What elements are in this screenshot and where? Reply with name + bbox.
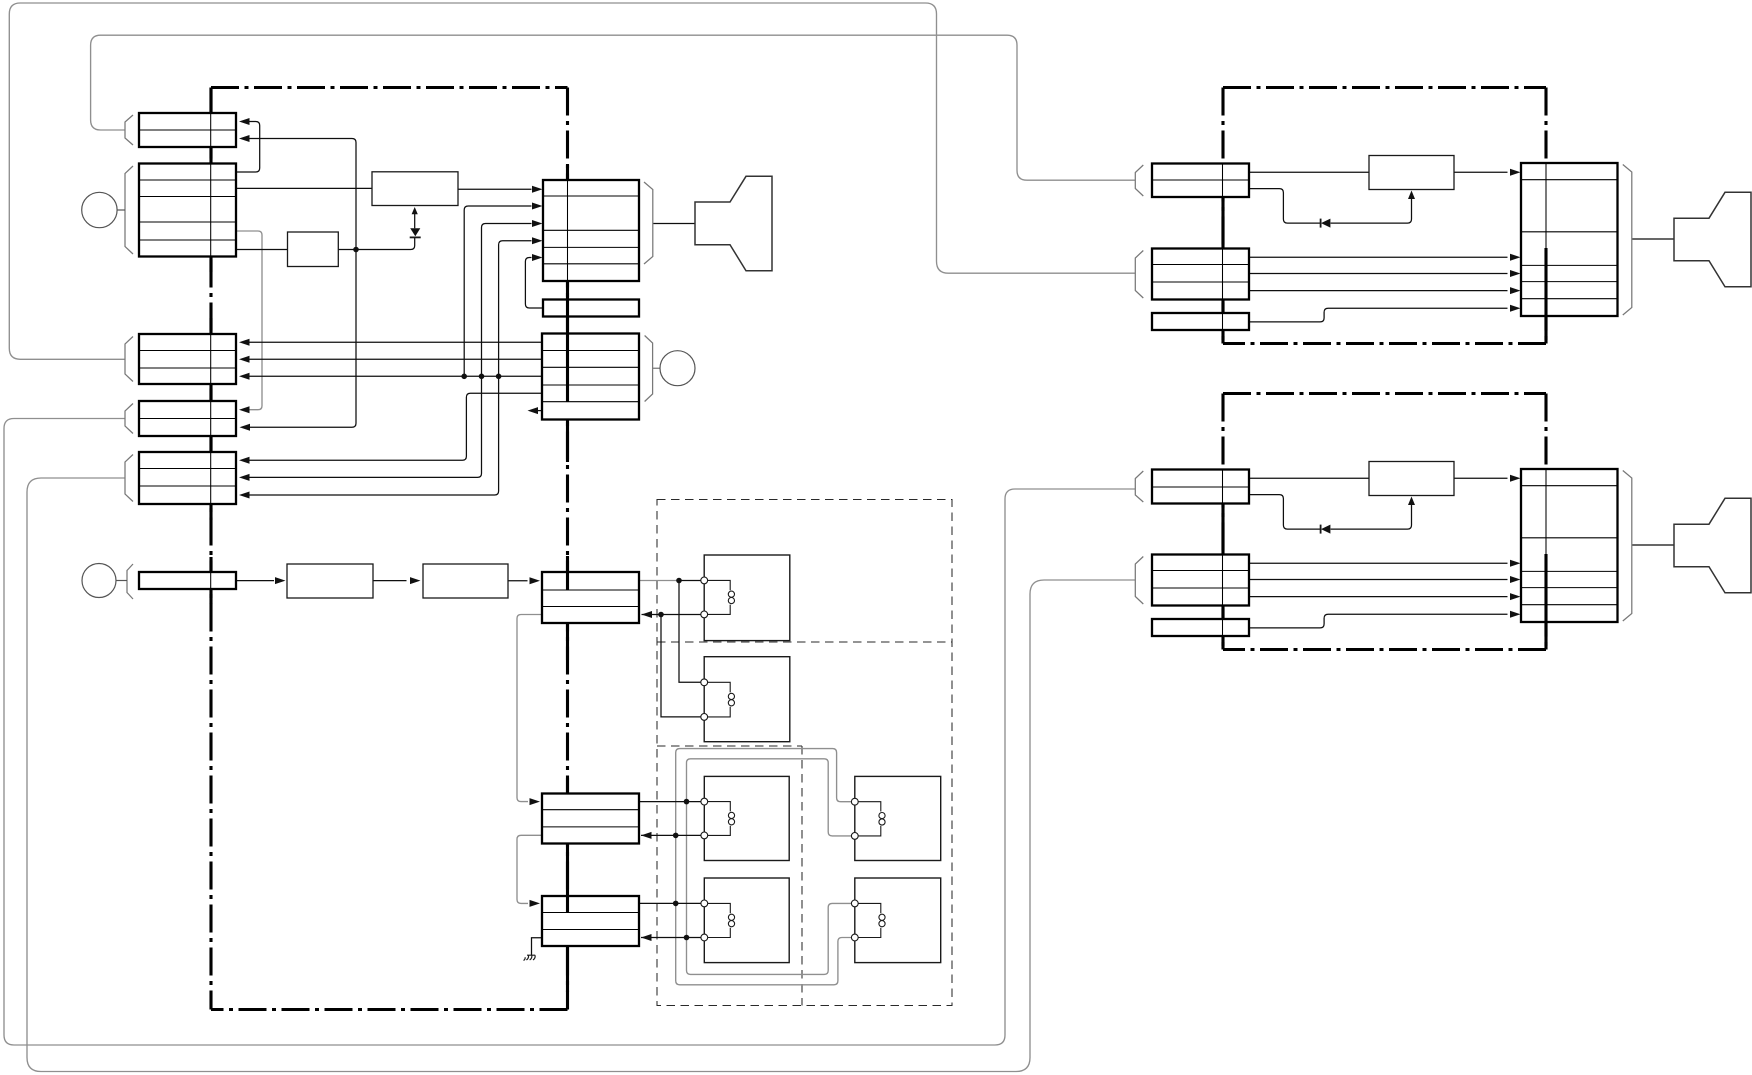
wire: speaker bracket stub SP3 [1632,544,1674,546]
wire: connector S3 to connector K3 [1249,614,1508,628]
ground symbol at connector H [524,955,536,960]
amplifier unit U2 border left [1221,88,1224,344]
connector F body [542,572,639,623]
U1 border solid segment above connector N [209,557,212,572]
block B3 [287,564,373,598]
connector E pin row lines [139,452,236,504]
arrow into block B3 [275,577,286,584]
wire: connector G row3 to connector H row1 [517,835,542,903]
relay R4 terminals [851,798,858,805]
wire: connector A3 row1 to amp block B6 [1249,477,1369,479]
wire: connector H row3 ground lead [532,938,543,955]
connector E body [139,452,236,504]
arrow into connector K3 row3 [1510,560,1521,567]
arrow into connector G row3 [641,832,652,839]
microphone circle at connector B [82,192,117,227]
wire: connector C row1 bus [249,341,542,343]
connector K2 body [1521,163,1618,316]
arrow into connector D row2 [240,424,251,431]
connector H pin row lines [542,913,639,930]
wire: junction to relay R1 coil 1 [679,580,704,582]
wire: amp block B5 output to connector K2 row1 [1454,171,1508,173]
wire: connector A2 row1 to amp block B5 [1249,171,1369,173]
wire: connector H row1 to relay R5 coil 1 [639,902,704,904]
relay R3 body [704,776,789,860]
arrow into connector E row2 [239,474,250,481]
relay R5 coil [708,903,731,937]
wire: connector A3 row2 to diode D3 [1249,495,1321,529]
bracket connector A [125,115,133,145]
connector F pin row lines [542,590,639,607]
U1 border solid segment below connector B [209,257,212,273]
U1 border solid segment between D and E [209,436,212,452]
connector S1 divider [567,300,569,317]
bracket connector K3 [1623,471,1632,622]
relay R3 coil [708,802,731,836]
junction dot relay R3 coil1 [684,799,690,805]
wire: speaker bracket stub SP1 [653,223,695,225]
wire: connector S2 to connector K2 [1249,308,1508,322]
U2 left border solid between B2 and S2 [1221,300,1224,314]
microphone circle at connector J2 [660,351,695,386]
wire: relay R4 coil 1 to relay R6 coil 2 loop [676,749,855,985]
wire: connector G row3 to relay R3 coil 2 [641,834,704,836]
audio control unit U1 border bottom [211,1008,568,1011]
arrow into block B4 [410,577,421,584]
diode D2 triangle [1321,219,1330,228]
bracket connector K2 [1623,165,1632,316]
bracket connector J1 [644,182,653,264]
block B2 [288,232,339,267]
wire: connector H row3 to relay R5 coil 2 [641,937,704,939]
U1 border solid segment above connector A [209,88,212,114]
connector H body [542,896,639,946]
connector J1 pin row lines [543,180,639,281]
junction dot ground bus 3 [496,374,502,380]
wire: connector B row4 to connector D row1 [237,231,262,410]
relay R2 terminals [701,679,708,686]
arrow into connector D row1 [239,406,250,413]
diode D1 triangle [410,228,420,236]
junction dot B2 output [353,247,359,253]
arrow into connector E row1 [239,457,250,464]
unit border segment through connector K2 [1544,248,1547,316]
wire: connector B3 row2 to connector K3 [1249,579,1508,581]
amplifier unit U3 border bottom [1223,648,1546,651]
arrow into connector J1 row2 [532,203,543,210]
wire: connector J1 row4 to connector E row3 [249,241,532,495]
arrow into connector G row1 [530,798,541,805]
junction dot ground bus 2 [479,374,485,380]
wire: connector B2 row3 to connector K2 [1249,290,1508,292]
connector B3 pin row lines [1152,555,1249,606]
connector A3 pin row line [1152,470,1249,504]
unit border segment through connector J2 [566,334,569,403]
diode D2 arrow up into B5 [1408,191,1415,200]
wire: connector C to connector B2 [9,3,1135,359]
U3 left border solid between A3 and B3 [1221,504,1224,555]
wire: block B3 to block B4 [373,580,407,582]
junction dot relay R3 coil2 [673,833,679,839]
U1 border solid segment between A and B [209,147,212,164]
U1 right border solid below F [566,623,569,660]
U1 right border solid J1 to S1 [566,281,569,300]
U1 border solid segment above connector C [209,318,212,334]
amplifier unit U3 border left [1221,394,1224,650]
relay R4 coil [858,802,881,836]
U1 right border solid above G [566,778,569,794]
wire: F row3 to relay R1 coil 2 [642,614,705,616]
bracket connector D [125,404,133,434]
block B4 [423,564,508,598]
unit border segment through connector K3 [1544,554,1547,622]
connector A body [139,113,236,147]
connector J2 body [542,334,639,420]
wire: amp block B6 output to connector K3 row1 [1454,477,1508,479]
connector K3 pin row lines [1521,469,1618,622]
amp block B1 [372,172,458,206]
connector S3 divider [1222,619,1224,636]
arrow into connector A row2 [239,135,250,142]
audio control unit U1 border top [211,86,568,89]
wire: connector N to block B3 [237,580,274,582]
wire: amp block B1 output to connector J1 row1 [458,188,532,190]
bracket connector A3 [1135,471,1143,502]
connector B2 body [1152,249,1249,300]
connector D pin row line [139,401,236,436]
unit border segment through connector H [566,896,569,913]
bracket connector C [125,337,133,382]
arrow into connector J1 row1 [532,186,543,193]
amplifier unit U2 border top [1223,86,1546,89]
U1 right border solid below J2 [566,420,569,463]
wire: connector G row1 to relay R3 coil 1 [639,801,704,803]
relay R3 terminals [701,798,708,805]
connector C body [139,334,236,384]
U3 left border solid between B3 and S3 [1221,606,1224,620]
relay R1 terminals [701,577,708,584]
arrow into connector K2 row6 [1510,305,1521,312]
connector B body [139,164,236,257]
arrow into connector K3 row4 [1510,576,1521,583]
relay compartment divider (horizontal, full) [657,641,952,643]
connector B3 body [1152,555,1249,606]
unit border segment through connector F [566,572,569,590]
U1 right border solid S1 to J2 [566,317,569,334]
connector A2 body [1152,164,1249,198]
U1 right border solid between G and H [566,844,569,897]
arrow into connector K3 row6 [1510,611,1521,618]
relay R6 terminals [851,900,858,907]
U2 left border solid below S2 [1221,330,1224,344]
diode D3 cathode bar [1320,525,1322,534]
speaker SP1 [695,176,772,270]
amplifier unit U3 border top [1223,392,1546,395]
speaker SP3 [1674,498,1751,593]
relay R1 coil [708,580,731,614]
diode D1 feedback arrow up [412,207,418,214]
wire: connector B2 row1 to connector K2 [1249,256,1508,258]
wire: connector F row3 to connector G row1 [517,615,542,802]
arrow into connector K3 row1 [1510,475,1521,482]
bracket connector E [125,455,133,502]
arrow into connector C row2 [239,356,250,363]
connector G pin row lines [542,810,639,827]
wire: block B2 output to diode D1 [338,238,414,250]
relay R1 body [704,555,790,641]
relay R6 coil [858,903,881,937]
wire: connector E to connector B3 [27,478,1135,1072]
arrow into connector K2 row3 [1510,254,1521,261]
bracket connector B3 [1135,557,1143,605]
connector A3 body [1152,470,1249,504]
wire: diode D3 to block B6 [1331,503,1412,529]
U1 right border solid above F [566,556,569,572]
junction dot relay R5 coil1 [673,901,679,907]
relay compartment divider (vertical) [801,746,803,1006]
wire: connector B2 row2 to connector K2 [1249,273,1508,275]
connector A pin row line [139,113,236,147]
arrow into connector J1 row5 [532,254,543,261]
wire: F row1 branch to relay R2 coil 1 [679,581,704,683]
connector D body [139,401,236,436]
arrow into connector A row1 [239,118,250,125]
wire: connector J2 row5 stub [538,410,542,412]
wire: diode D1 to block B1 [414,214,416,229]
connector C pin row lines [139,334,236,384]
amp block B5 [1369,156,1454,190]
wire: connector J1 row3 to connector E row2 [249,224,532,478]
bracket connector B2 [1135,251,1143,299]
arrow into connector E row3 [239,492,250,499]
diode D2 cathode bar [1320,219,1322,228]
connector B2 pin row lines [1152,249,1249,300]
U1 border solid segment below connector N [209,589,212,604]
wire: diode D2 to block B5 [1331,197,1412,223]
U3 left border solid below S3 [1221,636,1224,650]
arrow stub at connector J2 row5 [528,407,539,414]
connector S2 divider [1222,313,1224,330]
diode D3 arrow up into B6 [1408,497,1415,506]
relay assembly outer dashed box [657,500,952,1006]
connector K3 body [1521,469,1618,622]
relay R5 terminals [701,900,708,907]
relay R5 body [704,878,789,963]
connector J1 body [543,180,639,281]
relay R6 body [855,878,941,963]
amplifier unit U2 border right [1544,88,1547,344]
U1 border solid segment between C and D [209,384,212,401]
wire: connector B row2 to amp block B1 [237,187,372,189]
connector K2 pin row lines [1521,163,1618,316]
connector S2 body [1152,313,1249,330]
wire: connector B row5 to block B2 [237,249,288,251]
arrow into connector J1 row3 [532,220,543,227]
wire: connector F row1 to relay R1 coil junction [639,580,679,582]
amp block B6 [1369,462,1454,496]
U2 left border solid between A2 and B2 [1221,197,1224,249]
bracket connector A2 [1135,165,1143,196]
U2 right border solid below K2 [1544,316,1547,344]
arrow into connector J1 row4 [532,237,543,244]
speaker SP2 [1674,192,1751,286]
wire: connector B3 row3 to connector K3 [1249,596,1508,598]
junction dot ground bus 1 [461,374,467,380]
diode D3 triangle [1321,525,1330,534]
wire: F row3 branch to relay R2 coil 2 [661,615,704,717]
amplifier unit U2 border bottom [1223,342,1546,345]
connector S1 body [543,300,639,317]
wire: relay R4 coil 2 to relay R6 coil 1 loop [687,759,855,975]
wire: connector A row1 to connector B row1 loop [237,122,260,173]
audio control unit U1 border left [209,88,212,1010]
audio control unit U1 border right [566,88,569,1010]
relay R4 body [855,776,941,860]
arrow into connector K2 row1 [1510,169,1521,176]
wire: connector D to connector A3 [4,419,1135,1046]
diode D1 cathode bar [410,236,421,238]
connector G body [542,794,639,844]
wire: connector A row2 to connector D row2 [249,139,356,428]
junction dot relay R1 return [658,612,664,618]
arrow into connector K3 row5 [1510,593,1521,600]
relay R2 coil [708,682,731,717]
antenna circle at connector N [82,564,116,598]
U3 right border solid below K3 [1544,622,1547,650]
arrow into connector H row3 [641,934,652,941]
bracket connector N [127,564,133,599]
connector N body [139,572,236,589]
U1 right border solid below H [566,946,569,992]
relay compartment divider (horizontal, left half) [657,745,802,747]
arrow into connector C row3 [239,373,250,380]
connector J2 pin row lines [542,351,639,402]
arrow into connector F row1 [530,577,541,584]
junction dot relay R5 coil2 [684,935,690,941]
arrow into connector F row3 [642,611,653,618]
wire: connector C row2 bus [249,358,542,360]
wire: connector C row3 ground bus [249,375,542,377]
arrow into connector K2 row5 [1510,287,1521,294]
bracket connector J2 [645,336,660,402]
connector A2 pin row line [1152,164,1249,198]
amplifier unit U3 border right [1544,394,1547,650]
arrow into connector K2 row4 [1510,270,1521,277]
wire: connector S1 to connector J1 row5 loop [525,258,543,309]
relay R2 body [704,657,790,742]
arrow into connector H row1 [530,900,541,907]
unit border segment through connector S1 [566,300,569,317]
wire: connector A to connector A2 (shielded harness) [91,35,1136,180]
wire: connector J2 row4 to connector E row1 [249,393,542,460]
wire: connector B3 row1 to connector K3 [1249,562,1508,564]
connector S3 body [1152,619,1249,636]
U1 border solid segment below connector E [209,504,212,520]
wire: connector A2 row2 to diode D2 [1249,189,1321,224]
wire: block B4 to connector F row1 [508,580,528,582]
wire: connector J1 row2 drop to ground bus [464,206,531,376]
connector B pin row lines [139,164,236,257]
connector N divider [210,572,212,589]
junction dot relay R1 feed [676,578,682,584]
bracket connector B [125,166,133,254]
wire: speaker bracket stub SP2 [1632,238,1674,240]
arrow into connector C row1 [239,339,250,346]
U1 right border solid above J1 [566,165,569,180]
